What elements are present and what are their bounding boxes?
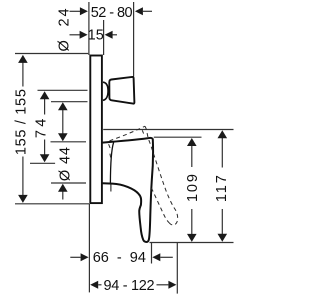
svg-text:74: 74: [34, 116, 50, 139]
svg-text:66 - 94: 66 - 94: [93, 250, 146, 266]
svg-text:Ø 24: Ø 24: [57, 7, 73, 52]
svg-text:15: 15: [88, 28, 104, 44]
svg-text:Ø 44: Ø 44: [57, 146, 73, 181]
svg-text:155 / 155: 155 / 155: [13, 88, 29, 155]
svg-text:94 - 122: 94 - 122: [103, 278, 154, 294]
svg-text:117: 117: [214, 173, 230, 202]
svg-text:109: 109: [185, 172, 201, 202]
svg-text:52 - 80: 52 - 80: [91, 5, 133, 21]
